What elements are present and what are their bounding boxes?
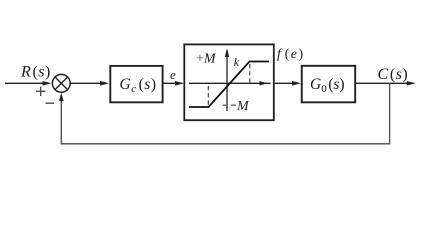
svg-text:+M: +M <box>196 52 217 67</box>
svg-text:C(s): C(s) <box>378 66 409 83</box>
svg-text:G0(s): G0(s) <box>310 76 345 95</box>
svg-text:R(s): R(s) <box>20 63 51 80</box>
svg-text:M: M <box>236 99 250 114</box>
svg-text:e: e <box>170 67 176 82</box>
svg-text:k: k <box>234 57 240 69</box>
svg-text:Gc(s): Gc(s) <box>120 76 157 95</box>
svg-text:f(e): f(e) <box>277 47 305 62</box>
